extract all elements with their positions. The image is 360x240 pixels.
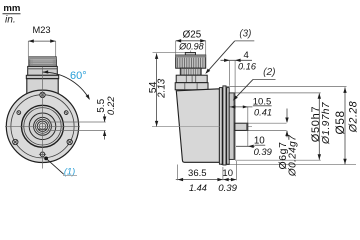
svg-text:0.16: 0.16 bbox=[238, 62, 257, 72]
svg-text:Ø1.97h7: Ø1.97h7 bbox=[321, 102, 332, 145]
svg-text:M23: M23 bbox=[32, 25, 50, 35]
svg-text:mm: mm bbox=[3, 3, 20, 14]
svg-text:10: 10 bbox=[254, 135, 265, 146]
svg-text:2.13: 2.13 bbox=[157, 78, 168, 99]
svg-text:(2): (2) bbox=[263, 67, 275, 78]
svg-text:in.: in. bbox=[5, 15, 16, 26]
svg-text:10: 10 bbox=[222, 168, 233, 179]
svg-text:0.39: 0.39 bbox=[254, 146, 273, 157]
svg-text:Ø25: Ø25 bbox=[183, 30, 202, 41]
svg-text:60°: 60° bbox=[70, 70, 87, 82]
svg-text:Ø50h7: Ø50h7 bbox=[310, 106, 322, 143]
svg-text:Ø0.98: Ø0.98 bbox=[178, 41, 204, 51]
svg-text:4: 4 bbox=[243, 50, 248, 61]
svg-text:0.22: 0.22 bbox=[106, 96, 117, 115]
svg-text:36.5: 36.5 bbox=[188, 168, 207, 179]
svg-text:1.44: 1.44 bbox=[189, 183, 207, 193]
svg-text:Ø58: Ø58 bbox=[333, 110, 347, 134]
svg-text:0.41: 0.41 bbox=[254, 107, 272, 117]
svg-text:Ø2.28: Ø2.28 bbox=[347, 101, 359, 133]
svg-text:(3): (3) bbox=[239, 29, 251, 40]
svg-text:0.39: 0.39 bbox=[218, 183, 237, 194]
svg-text:Ø0.24g7: Ø0.24g7 bbox=[287, 135, 298, 177]
